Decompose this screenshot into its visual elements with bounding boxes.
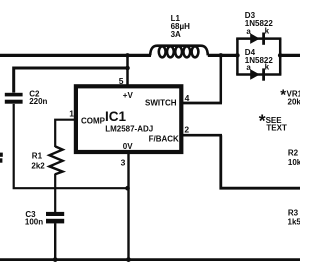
node: junction dot bottom rail / pin3 xyxy=(126,257,131,262)
clipped glyph at left edge xyxy=(0,153,3,157)
wire: diode pair right vertical xyxy=(279,39,282,75)
svg-text:2k2: 2k2 xyxy=(31,161,45,170)
svg-text:TEXT: TEXT xyxy=(266,123,287,132)
svg-text:+V: +V xyxy=(123,91,134,100)
wire: bottom 0V rail xyxy=(0,258,300,261)
svg-text:F/BACK: F/BACK xyxy=(149,135,179,144)
capacitor C3 plates xyxy=(46,212,64,216)
wire: +V top rail from left edge to L1 xyxy=(0,54,151,57)
wire: pin 1 COMP stub xyxy=(55,120,75,147)
svg-text:R3: R3 xyxy=(288,209,299,218)
svg-text:3A: 3A xyxy=(171,30,181,39)
wire: C3 to bottom rail lead xyxy=(54,223,56,259)
node: junction dot C2 link / pin5 xyxy=(125,66,130,71)
wire: D4 branch xyxy=(236,73,281,76)
svg-text:k: k xyxy=(265,27,270,36)
wire: pin 3 drop from 0V to bottom rail xyxy=(127,152,129,260)
svg-text:a: a xyxy=(246,63,251,72)
wire: diode pair left vertical xyxy=(236,39,239,75)
wire: pin 2 drop and feedback rail to right edge xyxy=(221,135,300,188)
diode D3 triangle and cathode bar xyxy=(250,33,260,44)
svg-text:R2: R2 xyxy=(288,148,299,157)
svg-text:4: 4 xyxy=(185,93,190,103)
svg-text:LM2587-ADJ: LM2587-ADJ xyxy=(105,124,153,133)
wire: output rail to right edge xyxy=(280,54,300,57)
svg-text:*: * xyxy=(280,87,286,104)
svg-text:10k: 10k xyxy=(288,158,300,167)
svg-text:1: 1 xyxy=(69,108,74,118)
svg-text:220n: 220n xyxy=(29,97,47,106)
svg-text:5: 5 xyxy=(119,76,124,86)
node: junction dot diode pair right xyxy=(278,53,283,58)
svg-text:k: k xyxy=(265,62,270,71)
svg-text:a: a xyxy=(246,27,251,36)
inductor L1 loops xyxy=(159,46,199,57)
svg-text:100n: 100n xyxy=(25,218,43,227)
svg-text:SWITCH: SWITCH xyxy=(145,98,177,107)
node: junction dot diode pair left xyxy=(235,53,240,58)
wire: D3 branch xyxy=(236,37,281,40)
node: junction dot 0V link / pin3 xyxy=(125,186,130,191)
wire: pin 5 riser xyxy=(126,55,129,86)
capacitor C2 plates xyxy=(5,93,23,97)
wire: pin 4 stub xyxy=(181,102,222,105)
svg-text:COMP: COMP xyxy=(81,117,106,126)
wire: C2 top link at y=68 xyxy=(14,68,128,93)
node: junction dot after L1 xyxy=(219,53,224,58)
inductor L1 body xyxy=(150,46,208,56)
svg-text:3: 3 xyxy=(121,158,126,168)
svg-text:IC1: IC1 xyxy=(105,109,127,124)
wire: L1 to diode pair xyxy=(208,54,239,57)
node: junction dot top rail / pin5 xyxy=(125,53,130,58)
svg-text:0V: 0V xyxy=(123,142,133,151)
op-amp IC1 box outline xyxy=(76,86,181,152)
diode D4 triangle and cathode bar xyxy=(250,69,260,80)
node: junction dot bottom rail / C3 xyxy=(53,257,58,262)
svg-text:1k5: 1k5 xyxy=(288,218,301,227)
label L1 value xyxy=(171,14,191,39)
wire: F/BACK pin 2 stub xyxy=(181,134,222,137)
svg-text:2: 2 xyxy=(184,125,189,135)
wire: riser from SWITCH pin 4 up to top rail xyxy=(220,55,223,103)
wire: R1 to C3 lead xyxy=(54,174,56,213)
resistor R1 zigzag xyxy=(49,146,62,174)
svg-text:20k: 20k xyxy=(288,98,301,107)
wire: C2 bottom lead down to 0V link xyxy=(14,104,129,188)
svg-text:R1: R1 xyxy=(32,152,43,161)
